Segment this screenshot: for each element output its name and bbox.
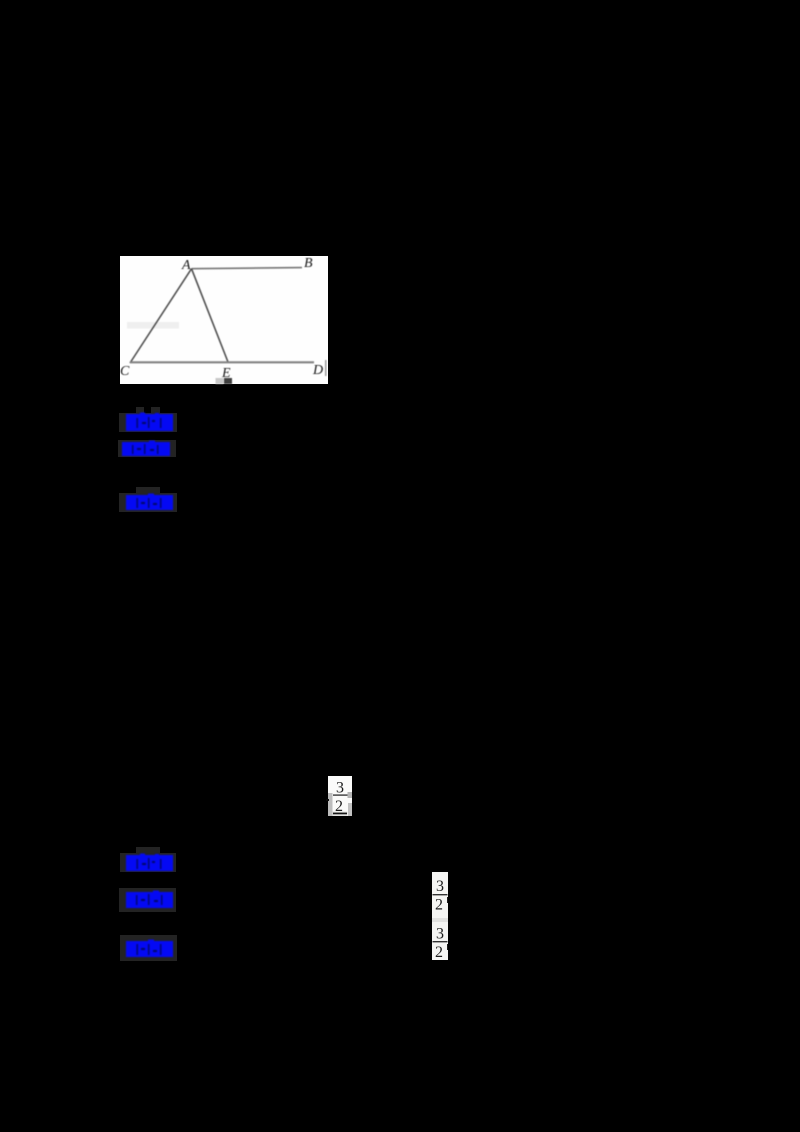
svg-text:2: 2 <box>435 944 443 960</box>
svg-text:B: B <box>304 256 313 271</box>
svg-text:3: 3 <box>436 926 444 943</box>
svg-text:2: 2 <box>335 798 343 815</box>
svg-text:D: D <box>312 363 323 378</box>
svg-text:A: A <box>181 258 191 273</box>
svg-text:3: 3 <box>436 878 444 895</box>
svg-text:2: 2 <box>435 897 443 914</box>
svg-text:C: C <box>120 364 130 379</box>
svg-text:3: 3 <box>336 780 344 797</box>
